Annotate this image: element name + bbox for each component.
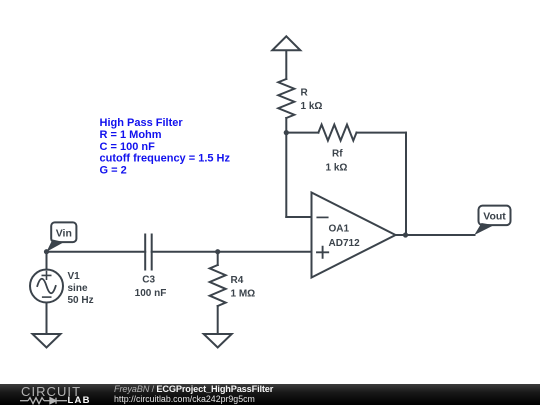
svg-text:50 Hz: 50 Hz <box>68 295 94 306</box>
svg-text:High Pass Filter: High Pass Filter <box>100 117 184 129</box>
svg-text:1 MΩ: 1 MΩ <box>231 289 256 300</box>
svg-text:cutoff frequency = 1.5 Hz: cutoff frequency = 1.5 Hz <box>100 153 231 165</box>
svg-text:R4: R4 <box>231 275 244 286</box>
svg-text:OA1: OA1 <box>329 224 350 235</box>
svg-text:R = 1 Mohm: R = 1 Mohm <box>100 129 162 141</box>
svg-text:Rf: Rf <box>332 149 343 160</box>
svg-text:AD712: AD712 <box>329 238 361 249</box>
svg-text:V1: V1 <box>68 271 81 282</box>
svg-text:C3: C3 <box>142 275 155 286</box>
svg-text:C = 100 nF: C = 100 nF <box>100 141 156 153</box>
svg-text:1 kΩ: 1 kΩ <box>301 101 323 112</box>
svg-text:R: R <box>301 88 309 99</box>
svg-text:Vin: Vin <box>56 228 72 240</box>
svg-text:G = 2: G = 2 <box>100 164 127 176</box>
svg-text:100 nF: 100 nF <box>135 288 167 299</box>
svg-text:Vout: Vout <box>483 211 506 223</box>
svg-text:sine: sine <box>68 283 88 294</box>
svg-text:1 kΩ: 1 kΩ <box>326 163 348 174</box>
